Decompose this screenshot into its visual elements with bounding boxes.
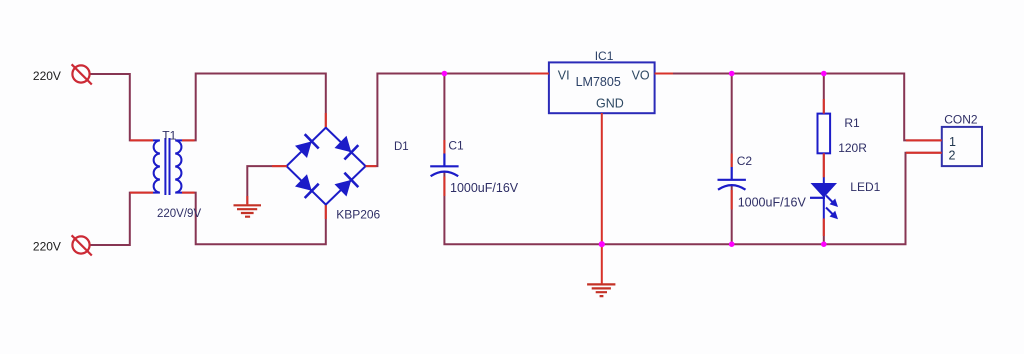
svg-text:220V: 220V (33, 69, 61, 83)
svg-text:VI: VI (558, 69, 570, 83)
svg-text:2: 2 (949, 149, 956, 163)
svg-text:LM7805: LM7805 (576, 75, 621, 89)
svg-text:1000uF/16V: 1000uF/16V (450, 181, 519, 195)
svg-text:T1: T1 (162, 129, 176, 143)
svg-text:IC1: IC1 (595, 49, 614, 63)
svg-text:KBP206: KBP206 (336, 207, 380, 221)
svg-text:GND: GND (596, 96, 624, 110)
svg-text:120R: 120R (838, 141, 867, 155)
svg-text:1: 1 (949, 135, 956, 149)
svg-text:C1: C1 (448, 138, 464, 152)
svg-text:220V/9V: 220V/9V (157, 208, 201, 220)
svg-text:CON2: CON2 (944, 113, 978, 127)
svg-text:D1: D1 (394, 141, 409, 153)
svg-text:VO: VO (632, 69, 650, 83)
svg-text:R1: R1 (844, 116, 860, 130)
svg-text:220V: 220V (33, 239, 61, 253)
svg-text:C2: C2 (737, 154, 753, 168)
svg-text:LED1: LED1 (850, 180, 880, 194)
svg-text:1000uF/16V: 1000uF/16V (738, 195, 807, 209)
